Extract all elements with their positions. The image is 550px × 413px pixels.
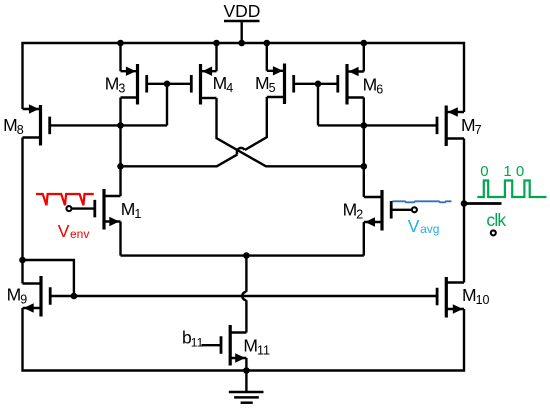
svg-text:0: 0: [480, 163, 488, 180]
svg-text:9: 9: [20, 293, 27, 307]
svg-text:M: M: [243, 336, 258, 356]
svg-text:0: 0: [516, 163, 524, 180]
svg-text:V: V: [408, 216, 420, 236]
svg-text:env: env: [70, 227, 89, 241]
svg-text:5: 5: [269, 81, 276, 95]
svg-text:10: 10: [476, 293, 490, 307]
svg-text:6: 6: [376, 82, 383, 96]
svg-text:2: 2: [356, 207, 363, 221]
svg-text:M: M: [213, 73, 228, 93]
svg-text:4: 4: [226, 81, 233, 95]
svg-text:clk: clk: [486, 210, 506, 230]
svg-text:7: 7: [475, 123, 482, 137]
svg-text:8: 8: [17, 123, 24, 137]
svg-text:M: M: [343, 199, 358, 219]
svg-text:11: 11: [257, 344, 270, 358]
svg-text:M: M: [121, 199, 136, 219]
svg-text:M: M: [363, 74, 378, 94]
svg-text:M: M: [3, 115, 18, 135]
svg-text:M: M: [255, 73, 270, 93]
svg-text:VDD: VDD: [224, 1, 261, 21]
svg-text:M: M: [461, 115, 476, 135]
svg-text:V: V: [58, 221, 70, 241]
svg-text:M: M: [7, 285, 22, 305]
svg-text:avg: avg: [420, 222, 439, 236]
svg-text:11: 11: [191, 336, 204, 350]
svg-text:1: 1: [134, 207, 141, 221]
svg-text:M: M: [105, 74, 120, 94]
svg-text:3: 3: [118, 82, 125, 96]
svg-text:1: 1: [503, 163, 511, 180]
svg-text:M: M: [462, 285, 477, 305]
